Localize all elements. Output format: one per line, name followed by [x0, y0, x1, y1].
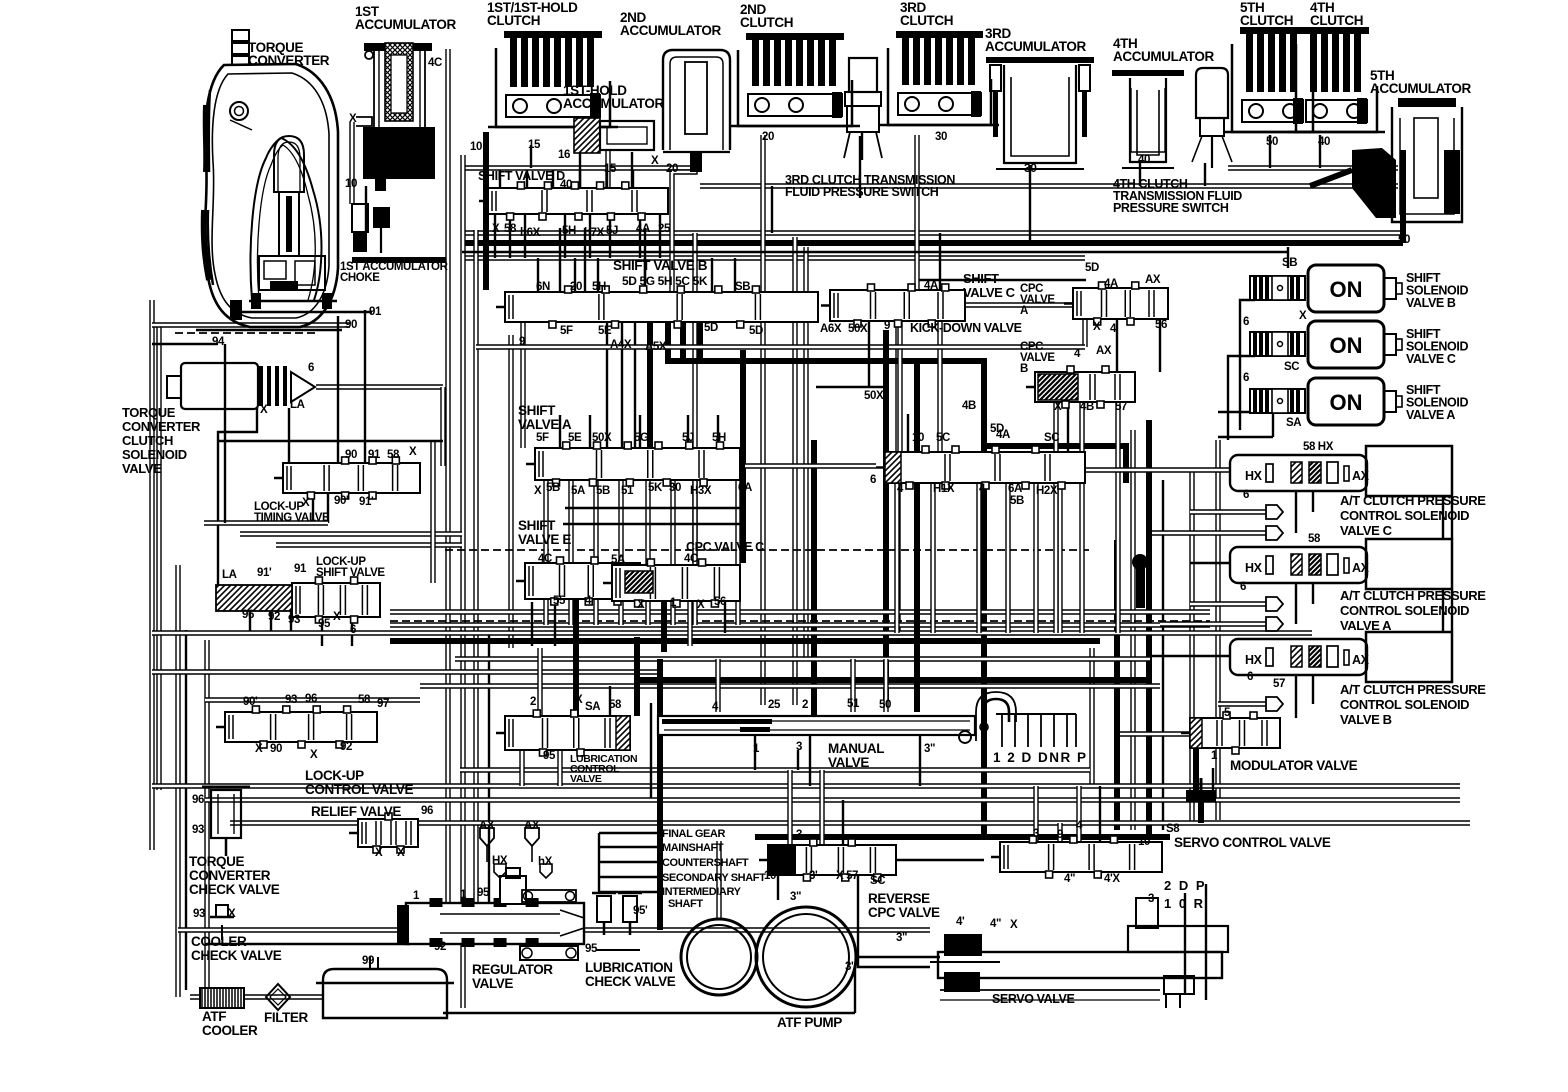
svg-text:FINAL GEAR: FINAL GEAR	[662, 828, 725, 840]
svg-text:A: A	[1020, 305, 1028, 317]
svg-text:CHECK VALVE: CHECK VALVE	[191, 948, 282, 963]
svg-text:AX: AX	[1352, 653, 1370, 667]
svg-text:91: 91	[294, 563, 307, 575]
svg-text:X: X	[333, 611, 341, 623]
svg-text:CHECK VALVE: CHECK VALVE	[189, 882, 280, 897]
svg-text:X: X	[637, 599, 645, 611]
svg-text:TORQUE: TORQUE	[189, 854, 245, 869]
svg-text:15: 15	[604, 163, 617, 175]
svg-text:93: 93	[288, 614, 300, 626]
svg-text:15: 15	[528, 139, 541, 151]
svg-text:A5X: A5X	[645, 341, 667, 353]
svg-text:VALVE C: VALVE C	[963, 285, 1016, 300]
svg-text:25: 25	[768, 699, 781, 711]
svg-text:A4X: A4X	[610, 339, 632, 351]
svg-text:HX: HX	[492, 855, 508, 867]
svg-text:RELIEF VALVE: RELIEF VALVE	[311, 804, 401, 819]
svg-text:X: X	[492, 223, 500, 235]
svg-text:6A: 6A	[738, 482, 752, 494]
svg-text:VALVE E: VALVE E	[518, 532, 571, 547]
svg-text:3': 3'	[809, 870, 818, 882]
svg-text:50: 50	[1266, 136, 1278, 148]
svg-text:MANUAL: MANUAL	[828, 741, 884, 756]
svg-text:58: 58	[387, 449, 400, 461]
svg-text:ACCUMULATOR: ACCUMULATOR	[985, 39, 1086, 54]
svg-text:SHAFT: SHAFT	[668, 898, 703, 910]
svg-text:4'X: 4'X	[1104, 873, 1120, 885]
svg-text:30: 30	[669, 482, 681, 494]
svg-text:4: 4	[1076, 820, 1083, 832]
svg-text:10: 10	[345, 178, 357, 190]
svg-text:4: 4	[979, 483, 986, 495]
svg-text:SC: SC	[1284, 361, 1299, 373]
svg-text:5E: 5E	[598, 325, 612, 337]
svg-text:CONTROL VALVE: CONTROL VALVE	[305, 782, 413, 797]
svg-text:X 57: X 57	[836, 870, 858, 882]
svg-text:4A: 4A	[996, 429, 1010, 441]
svg-text:ACCUMULATOR: ACCUMULATOR	[563, 96, 664, 111]
svg-text:X: X	[310, 749, 318, 761]
svg-text:SECONDARY SHAFT: SECONDARY SHAFT	[662, 872, 766, 884]
svg-text:25: 25	[658, 223, 671, 235]
svg-text:S8: S8	[1166, 823, 1180, 835]
svg-text:X: X	[1010, 919, 1018, 931]
svg-text:4: 4	[1110, 323, 1117, 335]
svg-text:HX: HX	[1245, 653, 1263, 667]
svg-text:4': 4'	[956, 916, 965, 928]
svg-text:90: 90	[345, 319, 357, 331]
svg-text:TORQUE: TORQUE	[122, 405, 176, 420]
svg-text:MAINSHAFT: MAINSHAFT	[662, 842, 724, 854]
svg-text:4C: 4C	[428, 57, 442, 69]
svg-text:X: X	[1299, 310, 1307, 322]
svg-text:X: X	[349, 113, 357, 125]
svg-text:CONVERTER: CONVERTER	[122, 419, 201, 434]
svg-text:CLUTCH: CLUTCH	[1240, 13, 1293, 28]
svg-text:10: 10	[470, 141, 482, 153]
svg-text:4C: 4C	[684, 553, 698, 565]
svg-text:SHIFT: SHIFT	[518, 518, 556, 533]
svg-text:AX: AX	[1352, 469, 1370, 483]
svg-text:99: 99	[362, 955, 374, 967]
svg-text:SERVO CONTROL VALVE: SERVO CONTROL VALVE	[1174, 835, 1331, 850]
svg-text:1: 1	[670, 597, 677, 609]
svg-text:X: X	[1093, 321, 1101, 333]
svg-text:4: 4	[585, 595, 592, 607]
svg-text:56: 56	[1155, 319, 1167, 331]
svg-text:50X: 50X	[848, 323, 868, 335]
svg-text:58: 58	[358, 694, 371, 706]
svg-text:5H: 5H	[712, 432, 726, 444]
svg-text:SA: SA	[1286, 417, 1301, 429]
svg-text:VALVE C: VALVE C	[1406, 352, 1456, 366]
svg-text:10: 10	[912, 432, 924, 444]
svg-text:58: 58	[1308, 533, 1321, 545]
svg-text:5B: 5B	[546, 482, 560, 494]
svg-text:ACCUMULATOR: ACCUMULATOR	[1113, 49, 1214, 64]
svg-text:VALVE A: VALVE A	[1340, 618, 1392, 633]
svg-text:X: X	[260, 404, 268, 416]
svg-text:93: 93	[192, 824, 204, 836]
svg-text:h7X: h7X	[584, 227, 605, 239]
svg-text:6: 6	[350, 624, 356, 636]
svg-text:ACCUMULATOR: ACCUMULATOR	[355, 17, 456, 32]
svg-text:6: 6	[1243, 489, 1249, 501]
svg-text:58 HX: 58 HX	[1303, 441, 1334, 453]
svg-text:CHOKE: CHOKE	[340, 272, 380, 284]
svg-text:92: 92	[434, 941, 446, 953]
svg-text:50X: 50X	[592, 432, 612, 444]
svg-text:57: 57	[1115, 401, 1127, 413]
svg-text:95: 95	[1352, 159, 1365, 171]
svg-text:X: X	[397, 847, 405, 859]
svg-text:ON: ON	[1330, 390, 1363, 415]
svg-text:ATF: ATF	[202, 1009, 226, 1024]
svg-text:95: 95	[318, 618, 331, 630]
svg-text:3: 3	[796, 829, 802, 841]
svg-text:50: 50	[879, 699, 891, 711]
svg-text:1: 1	[753, 743, 760, 755]
svg-text:CLUTCH: CLUTCH	[122, 433, 173, 448]
svg-text:4: 4	[1074, 348, 1081, 360]
svg-text:SC: SC	[1044, 432, 1059, 444]
svg-text:5A: 5A	[571, 485, 585, 497]
svg-text:3': 3'	[845, 961, 854, 973]
svg-text:H2X: H2X	[1036, 485, 1058, 497]
svg-text:LA: LA	[290, 399, 305, 411]
svg-text:50: 50	[1398, 234, 1410, 246]
svg-text:3: 3	[796, 741, 802, 753]
svg-text:ATF PUMP: ATF PUMP	[777, 1015, 842, 1030]
svg-text:90': 90'	[243, 696, 258, 708]
svg-text:40: 40	[1318, 136, 1330, 148]
svg-text:AX: AX	[1145, 274, 1161, 286]
svg-text:AX: AX	[1096, 345, 1112, 357]
svg-text:6: 6	[870, 474, 876, 486]
svg-text:hX: hX	[538, 856, 553, 868]
svg-text:4B: 4B	[962, 400, 976, 412]
svg-text:SB: SB	[735, 281, 750, 293]
svg-text:VALVE B: VALVE B	[1406, 296, 1456, 310]
svg-text:5D 5G 5H 5C 5K: 5D 5G 5H 5C 5K	[622, 274, 708, 288]
svg-text:6: 6	[308, 362, 314, 374]
svg-text:96: 96	[421, 805, 433, 817]
svg-text:CLUTCH: CLUTCH	[740, 15, 793, 30]
svg-text:58: 58	[609, 699, 622, 711]
svg-text:CONVERTER: CONVERTER	[248, 53, 330, 68]
svg-text:4": 4"	[1064, 873, 1075, 885]
svg-text:4B: 4B	[1080, 401, 1094, 413]
svg-text:20: 20	[570, 281, 582, 293]
svg-text:1 0 R: 1 0 R	[1164, 896, 1205, 911]
svg-text:3: 3	[1148, 893, 1154, 905]
svg-text:9: 9	[884, 320, 890, 332]
svg-text:4A: 4A	[1104, 278, 1118, 290]
svg-text:57: 57	[1273, 678, 1285, 690]
svg-text:3": 3"	[924, 743, 935, 755]
svg-text:4: 4	[712, 701, 719, 713]
svg-text:6A: 6A	[1008, 483, 1022, 495]
svg-text:2: 2	[530, 696, 536, 708]
svg-text:5H: 5H	[592, 281, 606, 293]
svg-text:SHIFT VALVE B: SHIFT VALVE B	[613, 258, 708, 273]
svg-text:AX: AX	[479, 820, 495, 832]
svg-text:4C: 4C	[538, 553, 552, 565]
svg-text:90: 90	[270, 743, 282, 755]
svg-text:A6X: A6X	[820, 323, 842, 335]
svg-text:50X: 50X	[864, 390, 884, 402]
svg-text:20: 20	[762, 131, 774, 143]
svg-text:93: 93	[285, 694, 297, 706]
svg-text:95: 95	[477, 887, 490, 899]
svg-text:90: 90	[345, 449, 357, 461]
svg-text:3": 3"	[790, 891, 801, 903]
svg-text:5D: 5D	[749, 325, 763, 337]
svg-text:5J: 5J	[682, 432, 694, 444]
svg-text:96: 96	[305, 693, 317, 705]
svg-text:SB: SB	[1282, 257, 1297, 269]
svg-text:6: 6	[1240, 581, 1246, 593]
svg-text:CLUTCH: CLUTCH	[1310, 13, 1363, 28]
svg-text:CONTROL SOLENOID: CONTROL SOLENOID	[1340, 603, 1469, 618]
svg-text:CONTROL SOLENOID: CONTROL SOLENOID	[1340, 508, 1469, 523]
svg-text:40: 40	[1138, 154, 1150, 166]
svg-text:9: 9	[519, 336, 525, 348]
svg-text:COOLER: COOLER	[191, 934, 247, 949]
svg-text:97: 97	[377, 698, 389, 710]
svg-text:58: 58	[504, 223, 517, 235]
svg-text:91': 91'	[257, 567, 272, 579]
svg-text:X: X	[255, 743, 263, 755]
svg-text:6: 6	[1247, 671, 1253, 683]
svg-text:ON: ON	[1330, 333, 1363, 358]
svg-text:SOLENOID: SOLENOID	[122, 447, 187, 462]
svg-text:CPC VALVE C: CPC VALVE C	[686, 540, 764, 554]
svg-text:LUBRICATION: LUBRICATION	[585, 960, 673, 975]
svg-text:10: 10	[764, 870, 776, 882]
svg-text:94: 94	[212, 336, 225, 348]
svg-text:B: B	[1020, 363, 1028, 375]
svg-text:CLUTCH: CLUTCH	[487, 13, 540, 28]
svg-text:5F: 5F	[536, 432, 549, 444]
svg-text:20: 20	[666, 163, 678, 175]
svg-text:16: 16	[558, 149, 570, 161]
svg-text:51: 51	[847, 698, 860, 710]
svg-text:1: 1	[1211, 750, 1218, 762]
svg-text:10: 10	[1138, 836, 1150, 848]
svg-text:X: X	[651, 155, 659, 167]
svg-text:VALVE: VALVE	[828, 755, 869, 770]
svg-text:VALVE C: VALVE C	[1340, 523, 1393, 538]
svg-text:93: 93	[193, 908, 205, 920]
svg-text:X: X	[228, 908, 236, 920]
svg-text:AX: AX	[1352, 561, 1370, 575]
svg-text:COOLER: COOLER	[202, 1023, 258, 1038]
svg-text:A/T CLUTCH PRESSURE: A/T CLUTCH PRESSURE	[1340, 682, 1486, 697]
svg-text:9: 9	[1057, 829, 1063, 841]
svg-text:LA: LA	[222, 569, 237, 581]
svg-text:h6X: h6X	[520, 227, 541, 239]
svg-text:SHIFT VALVE: SHIFT VALVE	[316, 567, 385, 579]
svg-text:92: 92	[340, 741, 352, 753]
svg-text:5C: 5C	[936, 432, 950, 444]
svg-text:91': 91'	[359, 496, 374, 508]
svg-text:KICK-DOWN VALVE: KICK-DOWN VALVE	[910, 321, 1022, 335]
svg-text:5F: 5F	[560, 325, 573, 337]
svg-text:90': 90'	[334, 495, 349, 507]
svg-text:ACCUMULATOR: ACCUMULATOR	[620, 23, 721, 38]
svg-text:95': 95'	[633, 905, 648, 917]
svg-text:INTERMEDIARY: INTERMEDIARY	[662, 886, 742, 898]
svg-text:FILTER: FILTER	[264, 1010, 308, 1025]
svg-text:5K: 5K	[648, 482, 663, 494]
svg-text:95: 95	[543, 750, 556, 762]
svg-text:LOCK-UP: LOCK-UP	[305, 768, 364, 783]
svg-text:1: 1	[413, 890, 420, 902]
svg-text:X: X	[575, 694, 583, 706]
svg-text:5J: 5J	[606, 225, 618, 237]
svg-text:91: 91	[368, 449, 381, 461]
svg-text:TIMING VALVE: TIMING VALVE	[254, 512, 330, 524]
svg-text:CONVERTER: CONVERTER	[189, 868, 271, 883]
svg-text:30: 30	[935, 131, 947, 143]
svg-text:4A: 4A	[924, 280, 938, 292]
svg-text:55: 55	[553, 595, 566, 607]
svg-text:SERVO VALVE: SERVO VALVE	[992, 992, 1074, 1006]
svg-text:1: 1	[460, 889, 467, 901]
svg-text:ACCUMULATOR: ACCUMULATOR	[1370, 81, 1471, 96]
svg-text:4": 4"	[990, 918, 1001, 930]
svg-text:96: 96	[242, 609, 254, 621]
svg-text:HX: HX	[1245, 469, 1263, 483]
svg-text:5B: 5B	[1010, 495, 1024, 507]
svg-text:VALVE B: VALVE B	[1340, 712, 1392, 727]
svg-text:VALVE: VALVE	[472, 976, 513, 991]
svg-text:ON: ON	[1330, 277, 1363, 302]
svg-text:4: 4	[897, 483, 904, 495]
svg-text:2: 2	[802, 699, 808, 711]
svg-text:5B: 5B	[596, 485, 610, 497]
svg-text:92: 92	[268, 611, 280, 623]
svg-text:A/T CLUTCH PRESSURE: A/T CLUTCH PRESSURE	[1340, 493, 1486, 508]
svg-text:5E: 5E	[568, 432, 582, 444]
svg-text:5D: 5D	[704, 322, 718, 334]
svg-text:X: X	[375, 847, 383, 859]
svg-text:CHECK VALVE: CHECK VALVE	[585, 974, 676, 989]
svg-text:5H: 5H	[562, 225, 576, 237]
svg-text:51: 51	[621, 485, 634, 497]
svg-text:COUNTERSHAFT: COUNTERSHAFT	[662, 857, 749, 869]
svg-text:VALVE A: VALVE A	[518, 417, 572, 432]
svg-text:MODULATOR VALVE: MODULATOR VALVE	[1230, 758, 1358, 773]
svg-text:X: X	[534, 485, 542, 497]
svg-text:6N: 6N	[536, 281, 550, 293]
svg-text:3: 3	[1033, 828, 1039, 840]
svg-text:X: X	[409, 446, 417, 458]
svg-text:1 2 D DNR P: 1 2 D DNR P	[993, 750, 1088, 765]
svg-text:HX: HX	[1245, 561, 1263, 575]
svg-text:VALVE: VALVE	[122, 461, 162, 476]
svg-text:95: 95	[585, 943, 598, 955]
svg-text:SA: SA	[585, 701, 600, 713]
svg-text:REGULATOR: REGULATOR	[472, 962, 553, 977]
svg-text:SHIFT: SHIFT	[518, 403, 556, 418]
svg-text:5G: 5G	[634, 432, 649, 444]
svg-text:5D: 5D	[1085, 262, 1099, 274]
svg-text:REVERSE: REVERSE	[868, 891, 930, 906]
svg-text:SC: SC	[870, 875, 885, 887]
svg-text:56: 56	[714, 596, 726, 608]
svg-text:4A: 4A	[636, 223, 650, 235]
svg-text:91: 91	[369, 306, 382, 318]
svg-text:96: 96	[192, 794, 204, 806]
svg-text:X: X	[1054, 401, 1062, 413]
svg-text:H1X: H1X	[933, 483, 955, 495]
svg-text:VALVE: VALVE	[570, 773, 602, 785]
svg-text:CLUTCH: CLUTCH	[900, 13, 953, 28]
svg-text:X: X	[302, 497, 310, 509]
svg-text:6: 6	[1243, 372, 1249, 384]
svg-text:6: 6	[1243, 316, 1249, 328]
svg-text:30: 30	[1024, 161, 1037, 175]
svg-text:SHIFT: SHIFT	[963, 271, 999, 286]
svg-text:SHIFT VALVE D: SHIFT VALVE D	[478, 169, 565, 183]
svg-text:3": 3"	[896, 932, 907, 944]
svg-text:5A: 5A	[611, 554, 625, 566]
svg-text:AX: AX	[524, 820, 540, 832]
svg-text:CPC VALVE: CPC VALVE	[868, 905, 940, 920]
svg-text:CONTROL SOLENOID: CONTROL SOLENOID	[1340, 697, 1469, 712]
svg-text:FLUID PRESSURE SWITCH: FLUID PRESSURE SWITCH	[785, 185, 939, 199]
svg-text:40: 40	[560, 179, 572, 191]
svg-text:2 D P: 2 D P	[1164, 878, 1207, 893]
svg-text:1: 1	[1448, 199, 1455, 211]
svg-text:A/T CLUTCH PRESSURE: A/T CLUTCH PRESSURE	[1340, 588, 1486, 603]
svg-text:5: 5	[1224, 707, 1231, 719]
svg-text:PRESSURE SWITCH: PRESSURE SWITCH	[1113, 201, 1229, 215]
svg-text:VALVE A: VALVE A	[1406, 408, 1455, 422]
svg-text:H3X: H3X	[690, 485, 712, 497]
svg-text:X: X	[697, 599, 705, 611]
